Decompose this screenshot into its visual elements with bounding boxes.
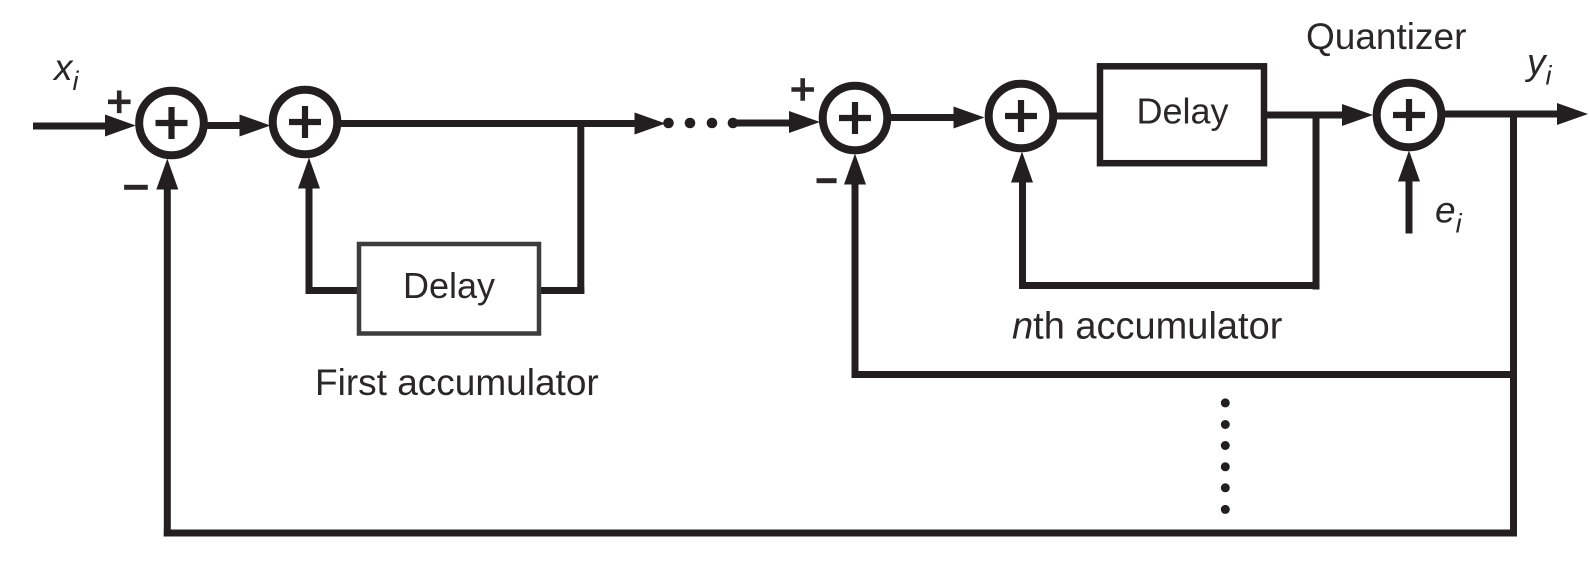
wire delay1 right connector (539, 287, 584, 294)
arrowhead into S1 (105, 115, 136, 137)
summing junction S3 (823, 86, 888, 151)
wire delay2 to quantizer adder (1263, 112, 1345, 119)
delay block D2 (1100, 66, 1264, 163)
wire dots to adder3 (732, 120, 794, 127)
arrowhead into S2 (240, 115, 271, 137)
summing junction S2 (273, 90, 338, 155)
wire vertical below adder4 (1019, 180, 1026, 289)
svg-text:First accumulator: First accumulator (315, 362, 599, 403)
plus sign at S3 input (791, 78, 814, 101)
wire vertical below adder2 from delay1 (306, 186, 313, 294)
svg-text:Quantizer: Quantizer (1306, 16, 1466, 57)
summing junction S5 quantizer (1377, 83, 1442, 148)
wire e_i vertical (1406, 179, 1413, 234)
wire output branch down (1510, 114, 1517, 537)
wire quantizer to output (1444, 111, 1560, 118)
arrowhead into quantizer (1342, 104, 1373, 126)
wire branch down to delay1 right (577, 124, 584, 295)
signal path dots (663, 118, 674, 129)
wire nth accumulator loop horizontal (1019, 282, 1320, 289)
wire adder2 to dots branch segment (339, 120, 636, 127)
arrowhead up into S1 (156, 159, 178, 190)
svg-text:Delay: Delay (403, 265, 495, 306)
arrowhead up into S2 (298, 158, 320, 189)
wire adder1 to adder2 (207, 122, 240, 129)
summing junction S4 (989, 84, 1054, 149)
wire adder4 to delay2 (1056, 113, 1100, 120)
vertical ellipsis dots (1221, 398, 1230, 407)
wire quantizer feedback horizontal (852, 371, 1518, 378)
wire bottom feedback horizontal (164, 530, 1517, 537)
wire feedback vertical below adder1 (164, 186, 171, 537)
arrowhead up e_i into quantizer (1398, 151, 1420, 182)
arrowhead up into S4 (1011, 152, 1033, 183)
wire branch down from delay2 output (1313, 115, 1320, 290)
wire input to first adder (33, 123, 108, 130)
minus sign at S1 input (124, 185, 148, 190)
delay block D1 (359, 244, 539, 334)
arrowhead before dots (635, 113, 666, 135)
arrowhead into S4 (954, 107, 985, 129)
svg-text:Delay: Delay (1136, 91, 1228, 132)
minus sign at S3 input (817, 178, 837, 183)
summing junction S1 (139, 91, 204, 156)
wire adder3 to adder4 (889, 114, 957, 121)
wire delay1 left connector (306, 287, 360, 294)
svg-text:nth accumulator: nth accumulator (1012, 306, 1283, 348)
wire vertical below adder3 (852, 182, 859, 378)
arrowhead up into S3 (844, 154, 866, 185)
arrowhead output (1557, 103, 1588, 125)
arrowhead into S3 (789, 111, 820, 133)
plus sign at S1 input (108, 91, 131, 114)
